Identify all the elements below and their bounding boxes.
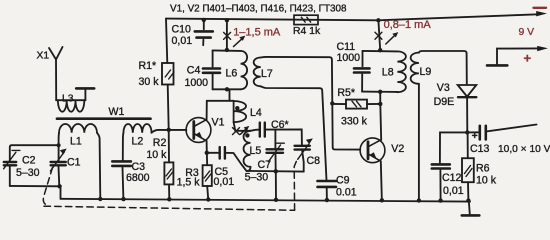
svg-text:0,01: 0,01: [443, 185, 464, 197]
resistor R4: [294, 15, 318, 24]
wire V1 emitter down: [206, 141, 208, 153]
node bus L1: [98, 197, 102, 201]
svg-text:10 k: 10 k: [476, 174, 497, 186]
inductor L4: [234, 101, 247, 122]
svg-text:L7: L7: [261, 68, 273, 80]
wire C13 output: [486, 125, 537, 132]
capacitor C1 variable: [51, 161, 66, 163]
wire R6 bottom lead: [467, 182, 469, 200]
wire L1 right down: [97, 133, 100, 199]
wire top supply rail: [166, 14, 538, 20]
wire ground bus: [61, 199, 471, 202]
capacitor C6: [259, 123, 261, 137]
svg-text:L2: L2: [132, 136, 144, 148]
inductor L2: [123, 124, 151, 133]
wire C2 bottom: [10, 185, 60, 187]
svg-text:C7: C7: [258, 159, 272, 171]
inductor L5: [244, 131, 251, 167]
wire L9 bottom to bus: [418, 84, 420, 202]
wire C6 to C8: [265, 129, 302, 144]
node bus C7: [274, 198, 278, 202]
svg-text:C2: C2: [22, 155, 36, 167]
wire C8 bottom stub: [302, 151, 304, 171]
svg-text:R1*: R1*: [139, 60, 157, 72]
node rail to tank1: [225, 18, 229, 22]
inductor L1: [59, 124, 97, 133]
svg-text:C6*: C6*: [271, 119, 289, 131]
wire tank1 top: [213, 49, 241, 52]
wire L7 bottom: [261, 86, 327, 180]
svg-text:9 V: 9 V: [519, 27, 535, 38]
svg-text:1000: 1000: [337, 52, 361, 64]
chassis ground bus: [469, 201, 470, 215]
inductor L8: [397, 51, 405, 92]
node C7 bottom: [274, 169, 278, 173]
svg-text:L9: L9: [420, 66, 432, 78]
svg-text:L6: L6: [226, 68, 238, 80]
capacitor C13: [478, 126, 481, 140]
wire rail down to tank1: [226, 20, 228, 50]
wire V1 base: [152, 130, 187, 133]
node tank2 bottom: [378, 90, 382, 94]
measuring point X on wire: [224, 32, 231, 39]
svg-text:6800: 6800: [126, 172, 150, 184]
svg-text:V2: V2: [391, 143, 404, 155]
node bus R2: [167, 197, 171, 201]
wire L2 right to base: [151, 132, 153, 134]
svg-text:1000: 1000: [185, 77, 209, 89]
svg-text:C12: C12: [442, 172, 462, 184]
svg-text:D9E: D9E: [434, 96, 455, 108]
node rail C10: [202, 18, 206, 22]
svg-text:C8: C8: [307, 155, 321, 167]
svg-text:C9: C9: [336, 174, 350, 186]
capacitor C9: [318, 180, 337, 183]
measuring arrow near L5: [241, 129, 247, 134]
wire to V2 base: [332, 103, 360, 149]
svg-text:5–30: 5–30: [16, 167, 40, 179]
wire tank2 bottom: [362, 91, 397, 93]
wire C5 to L5 bottom: [225, 153, 247, 171]
node R5 left: [330, 101, 334, 105]
svg-text:10,0 × 10 V: 10,0 × 10 V: [498, 144, 550, 155]
wire R2 bottom lead: [168, 184, 170, 200]
resistor R2: [164, 162, 173, 184]
node tank1 bottom: [225, 87, 229, 91]
svg-text:0,8–1 mA: 0,8–1 mA: [384, 19, 432, 31]
wire bus step: [59, 186, 62, 198]
wire L1 left down: [58, 133, 60, 161]
node tank2 top: [378, 48, 382, 52]
node rail tank2: [376, 18, 380, 22]
wire L5 top to C6: [251, 130, 260, 131]
chassis ground battery: [487, 64, 507, 67]
inductor L3: [58, 100, 84, 112]
transistor V2: [360, 138, 385, 163]
wire C7 node to bus: [275, 171, 277, 200]
wire node to C13: [467, 131, 480, 133]
node bus R6: [466, 198, 470, 202]
svg-text:R5*: R5*: [337, 87, 355, 99]
svg-text:R6: R6: [476, 163, 490, 175]
wire L5 bottom curve: [248, 167, 251, 171]
wire C5 left lead: [207, 152, 220, 154]
wire C7 bottom stub: [275, 155, 277, 172]
svg-text:30 k: 30 k: [139, 76, 160, 88]
resistor R6: [462, 158, 474, 182]
svg-text:R2: R2: [153, 137, 167, 149]
svg-text:L1: L1: [70, 136, 82, 148]
power arrow plus terminal: [537, 46, 548, 51]
node R5 right: [378, 102, 382, 106]
svg-text:C10: C10: [172, 24, 192, 36]
wire tank2 top: [363, 50, 398, 53]
svg-text:W1: W1: [109, 106, 125, 118]
diode V3: [458, 85, 477, 97]
svg-text:5–30: 5–30: [245, 171, 269, 183]
resistor R5: [346, 100, 367, 109]
resistor R3: [203, 165, 212, 186]
wire node to C12: [440, 132, 467, 162]
node bus V2: [380, 198, 384, 202]
wire L7 top: [261, 57, 333, 104]
wire V1 collector up: [206, 101, 208, 120]
wire R6 top lead: [467, 132, 469, 158]
capacitor C10: [203, 20, 205, 29]
node base of V1: [167, 128, 171, 132]
capacitor C3: [112, 160, 131, 163]
node bus R3: [206, 197, 210, 201]
svg-text:C4: C4: [187, 64, 201, 76]
svg-text:V3: V3: [437, 82, 450, 94]
node bus L9: [417, 198, 421, 202]
inductor L6: [241, 51, 248, 89]
capacitor C2 trimmer: [4, 161, 16, 163]
wire C4 branch top: [212, 50, 214, 66]
svg-text:0,01: 0,01: [172, 35, 193, 47]
node detector output: [465, 130, 469, 134]
node bus C12: [438, 198, 442, 202]
wire C1 C2 top: [10, 145, 59, 161]
svg-text:L4: L4: [250, 107, 262, 119]
dashed gang line: [43, 159, 297, 211]
power arrow minus terminal: [536, 11, 547, 16]
wire L4 to L5: [234, 122, 251, 131]
wire tank1 bottom: [213, 88, 241, 90]
svg-text:10 k: 10 k: [146, 149, 167, 161]
wire tank1 bottom to emitter node: [229, 89, 231, 101]
node C1 bottom: [57, 184, 61, 188]
wire rail down to tank2: [378, 20, 380, 50]
wire R3 bottom lead: [207, 186, 208, 200]
chassis ground antenna: [84, 90, 86, 101]
capacitor C5: [218, 147, 220, 159]
ferrite rod W1: [57, 117, 151, 120]
svg-text:X1: X1: [37, 51, 50, 62]
svg-text:+: +: [472, 131, 478, 142]
node tank1 top: [225, 48, 229, 52]
wire rail corner down to R1: [166, 19, 167, 63]
measuring point X2: [375, 32, 382, 39]
node bus C9: [325, 198, 329, 202]
svg-text:C1: C1: [67, 157, 81, 169]
svg-text:0.01: 0.01: [336, 186, 357, 198]
capacitor C11: [362, 51, 364, 67]
capacitor C12: [432, 163, 450, 166]
antenna X1: [49, 47, 63, 100]
svg-text:L8: L8: [382, 66, 394, 78]
wire V2 emitter down: [381, 161, 382, 201]
inductor L9: [411, 53, 419, 84]
svg-text:V1, V2 П401–П403, П416, П423,: V1, V2 П401–П403, П416, П423, ГТ308: [170, 4, 347, 15]
measuring point X near L5: [233, 128, 240, 135]
wire L2 left down to C3: [122, 133, 125, 161]
node V1 collector: [205, 151, 209, 155]
wire L9 top to diode: [419, 51, 467, 84]
inductor L7: [254, 58, 261, 87]
wire R2 top lead: [168, 130, 170, 163]
svg-text:0,01: 0,01: [214, 176, 235, 188]
wire R1 bottom lead: [168, 85, 169, 130]
svg-text:+: +: [524, 51, 532, 66]
wire C7 top stub: [274, 130, 276, 149]
wire L5 C7 C8 bottom: [247, 170, 304, 173]
wire V1 emitter node: [207, 100, 234, 102]
svg-text:1,5 k: 1,5 k: [177, 177, 201, 189]
svg-text:L5: L5: [250, 145, 262, 157]
minus sign label: [534, 7, 547, 9]
transistor V1: [186, 118, 211, 143]
wire battery plus: [497, 48, 539, 65]
svg-text:V1: V1: [212, 117, 225, 129]
measuring arrow: [234, 39, 242, 47]
svg-text:1–1,5 mA: 1–1,5 mA: [233, 27, 281, 39]
svg-text:R4 1k: R4 1k: [293, 26, 321, 37]
measuring arrow 2: [386, 35, 395, 44]
capacitor C7 trimmer: [267, 148, 284, 150]
node C1 top: [57, 143, 61, 147]
svg-text:L3: L3: [62, 94, 74, 105]
wire V2 collector branch: [380, 92, 381, 140]
wire R3 top lead: [206, 153, 208, 165]
node bus C3: [121, 197, 125, 201]
svg-text:330 k: 330 k: [341, 115, 368, 127]
capacitor C4: [203, 67, 220, 70]
svg-text:C13: C13: [470, 143, 490, 155]
resistor R1: [162, 63, 174, 85]
capacitor C8 variable: [295, 145, 310, 147]
